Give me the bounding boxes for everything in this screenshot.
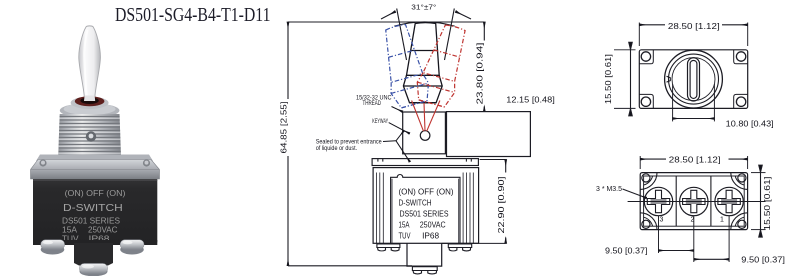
svg-text:1: 1 <box>720 217 724 224</box>
svg-text:15.50 [0.61]: 15.50 [0.61] <box>763 177 772 231</box>
svg-text:15.50 [0.61]: 15.50 [0.61] <box>604 54 613 104</box>
svg-text:9.50 [0.37]: 9.50 [0.37] <box>605 247 648 256</box>
svg-text:9.50 [0.37]: 9.50 [0.37] <box>741 256 785 265</box>
svg-text:15A: 15A <box>62 225 78 234</box>
svg-text:(ON) OFF (ON): (ON) OFF (ON) <box>399 188 454 197</box>
svg-text:28.50 [1.12]: 28.50 [1.12] <box>669 155 721 164</box>
svg-text:D-SWITCH: D-SWITCH <box>63 202 123 214</box>
svg-text:31°±7°: 31°±7° <box>411 3 436 12</box>
svg-text:TUV: TUV <box>399 231 411 240</box>
svg-text:250VAC: 250VAC <box>420 220 446 229</box>
svg-text:DS501 SERIES: DS501 SERIES <box>62 216 120 225</box>
svg-text:28.50 [1.12]: 28.50 [1.12] <box>668 22 720 31</box>
svg-text:(ON) OFF (ON): (ON) OFF (ON) <box>65 189 126 198</box>
svg-text:10.80 [0.43]: 10.80 [0.43] <box>726 120 774 129</box>
svg-text:2: 2 <box>691 217 695 224</box>
svg-text:3: 3 <box>660 217 664 224</box>
svg-text:DS501 SERIES: DS501 SERIES <box>400 209 449 218</box>
svg-text:22.90 [0.90]: 22.90 [0.90] <box>497 177 506 234</box>
svg-text:of liquide or dust.: of liquide or dust. <box>316 146 358 152</box>
svg-text:12.15 [0.48]: 12.15 [0.48] <box>506 96 555 105</box>
svg-text:23.80 [0.94]: 23.80 [0.94] <box>476 42 485 104</box>
svg-text:IP68: IP68 <box>422 231 440 240</box>
svg-text:64.85 [2.55]: 64.85 [2.55] <box>280 102 289 154</box>
svg-text:15A: 15A <box>399 220 411 229</box>
svg-text:DS501-SG4-B4-T1-D11: DS501-SG4-B4-T1-D11 <box>115 4 271 26</box>
svg-text:Sealed to prevent entrance: Sealed to prevent entrance <box>316 140 383 146</box>
svg-text:THREAD: THREAD <box>363 100 382 107</box>
svg-text:D-SWITCH: D-SWITCH <box>399 198 432 207</box>
svg-text:250VAC: 250VAC <box>88 225 118 234</box>
svg-text:3 * M3.5: 3 * M3.5 <box>596 186 622 193</box>
svg-text:KEYWAY: KEYWAY <box>372 118 388 125</box>
